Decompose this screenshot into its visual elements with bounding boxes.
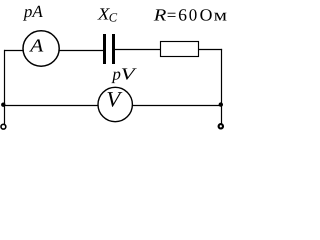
ammeter U1 circle <box>23 31 59 66</box>
svg-text:pA: pA <box>23 2 44 21</box>
wire: bottom horizontal <box>4 105 222 107</box>
svg-text:R: R <box>153 6 168 25</box>
svg-text:6: 6 <box>178 6 187 25</box>
wire: right vertical rail <box>221 49 223 124</box>
svg-text:p: p <box>111 65 121 84</box>
wire: ammeter to capacitor <box>55 50 103 52</box>
terminal right <box>219 124 223 128</box>
svg-text:О: О <box>200 6 213 25</box>
wire: left stub to ammeter <box>4 50 30 52</box>
svg-text:A: A <box>29 36 44 56</box>
resistor R1 body <box>161 42 199 57</box>
terminal left <box>1 124 6 129</box>
capacitor C1 right plate <box>112 34 115 64</box>
junction dot right <box>219 102 223 106</box>
voltmeter U2 circle <box>98 87 132 121</box>
wire: capacitor to right corner <box>115 49 222 51</box>
svg-text:C: C <box>109 10 118 24</box>
svg-text:м: м <box>214 6 228 25</box>
capacitor C1 left plate <box>103 34 106 64</box>
wire: left vertical rail <box>4 50 6 124</box>
junction dot left <box>1 103 5 107</box>
